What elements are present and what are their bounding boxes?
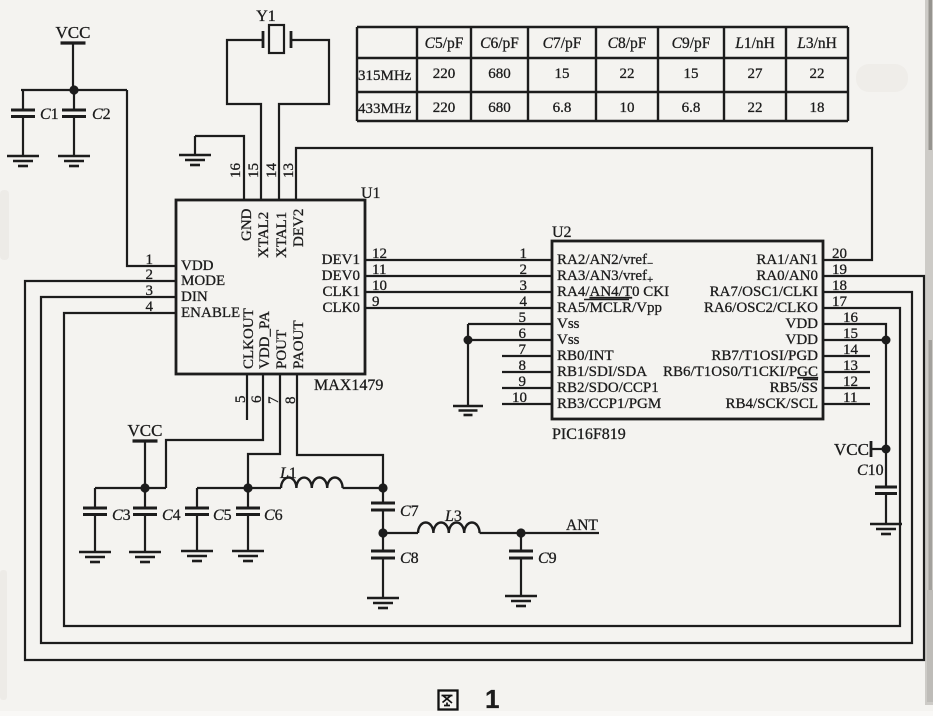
svg-text:CLKOUT: CLKOUT: [241, 308, 257, 369]
svg-text:15: 15: [246, 163, 262, 178]
svg-text:VCC: VCC: [56, 23, 91, 42]
node junction L1/C7/PAOUT: [378, 483, 387, 492]
svg-text:RA5/MCLR/Vpp: RA5/MCLR/Vpp: [557, 300, 662, 316]
svg-text:2: 2: [520, 262, 528, 278]
svg-text:1: 1: [146, 252, 154, 268]
node junction C6/POUT: [243, 483, 252, 492]
svg-text:680: 680: [488, 100, 511, 116]
svg-text:DEV1: DEV1: [322, 252, 360, 268]
svg-text:MODE: MODE: [181, 273, 225, 289]
wire U2 pin9 stub: [502, 387, 552, 389]
wire L3 to ANT: [480, 532, 599, 534]
svg-text:CLK1: CLK1: [323, 284, 361, 300]
svg-text:3: 3: [520, 278, 528, 294]
capacitor C3: [94, 488, 96, 508]
svg-text:6.8: 6.8: [682, 100, 701, 116]
svg-text:L3: L3: [444, 508, 462, 525]
wire DEV0 to RA3: [365, 275, 552, 277]
svg-text:1: 1: [520, 246, 528, 262]
wire U1 pin4 ENABLE routing: [64, 308, 900, 626]
svg-text:VDD: VDD: [181, 258, 214, 274]
svg-text:6.8: 6.8: [553, 100, 572, 116]
wire U2 pin11 stub: [823, 403, 870, 405]
svg-text:16: 16: [228, 163, 244, 179]
wire U2 pin13 stub: [823, 371, 870, 373]
svg-text:ENABLE: ENABLE: [181, 305, 240, 321]
ground below C9: [505, 595, 537, 598]
svg-text:MAX1479: MAX1479: [314, 377, 383, 394]
wire U2 pin12 stub: [823, 387, 870, 389]
capacitor C9: [520, 533, 522, 551]
ground below C5: [181, 550, 213, 553]
svg-text:C8/pF: C8/pF: [608, 35, 647, 52]
wire U2 pin7 stub: [502, 355, 552, 357]
node junction pin15/C10 line: [882, 336, 891, 345]
wire U1 pin13 DEV2 to U2 pin20: [296, 148, 872, 260]
wire U2 pin6 Vss: [468, 339, 552, 341]
wire U1 pin2 MODE routing: [25, 276, 924, 660]
IC U1 MAX1479 body: [176, 200, 365, 374]
svg-text:RB4/SCK/SCL: RB4/SCK/SCL: [725, 396, 818, 412]
svg-text:PAOUT: PAOUT: [291, 320, 307, 369]
wire C1-C2 rail: [21, 89, 127, 91]
svg-text:C6: C6: [264, 507, 283, 524]
capacitor C8: [382, 533, 384, 551]
wire U2 pin8 stub: [502, 371, 552, 373]
svg-text:10: 10: [620, 100, 635, 116]
svg-text:433MHz: 433MHz: [358, 101, 412, 117]
inductor L3: [418, 523, 480, 534]
svg-text:POUT: POUT: [274, 330, 290, 369]
svg-text:1: 1: [485, 684, 499, 714]
inductor L1: [281, 478, 343, 488]
capacitor C6: [247, 488, 249, 508]
svg-text:C10: C10: [857, 462, 884, 479]
svg-text:15: 15: [684, 66, 699, 82]
svg-text:Y1: Y1: [256, 8, 276, 25]
svg-text:L3/nH: L3/nH: [796, 35, 837, 52]
wire U1 pin8 PAOUT to C7 node: [297, 374, 383, 488]
wire U2 pin15 VDD: [823, 339, 886, 341]
scan right edge band: [925, 0, 933, 705]
wire U1 pin3 DIN routing: [41, 292, 912, 643]
svg-text:9: 9: [372, 294, 380, 310]
svg-text:XTAL1: XTAL1: [274, 212, 290, 258]
svg-text:14: 14: [264, 163, 280, 179]
svg-text:19: 19: [832, 262, 847, 278]
wire VDD line down to C10: [885, 340, 887, 487]
svg-text:DEV2: DEV2: [291, 209, 307, 247]
svg-text:C6/pF: C6/pF: [480, 35, 519, 52]
ground at U1 GND pin: [194, 136, 196, 155]
svg-text:RA7/OSC1/CLKI: RA7/OSC1/CLKI: [710, 284, 818, 300]
wire U2 pin14 stub: [823, 355, 870, 357]
svg-text:C1: C1: [40, 106, 59, 123]
wire U1 pin7 POUT to C6 node: [248, 374, 280, 488]
svg-text:18: 18: [832, 278, 847, 294]
wire U2 pin5 Vss: [468, 323, 552, 325]
ground below C6: [232, 550, 264, 553]
svg-text:U2: U2: [552, 224, 572, 241]
svg-text:C8: C8: [400, 550, 419, 567]
wire VCC stem: [144, 441, 146, 488]
IC U2 PIC16F819 body: [552, 241, 823, 419]
svg-text:VCC: VCC: [834, 440, 869, 459]
wire C5-C6-L1 rail: [197, 487, 281, 489]
ground below C8: [367, 597, 399, 600]
svg-text:220: 220: [433, 66, 456, 82]
node junction VCC/C4: [140, 483, 149, 492]
node junction VCC/C10: [882, 445, 891, 454]
wire L1 to C7 node: [343, 487, 383, 489]
capacitor C7: [382, 488, 384, 503]
wire CLK0 to RA5: [365, 307, 552, 309]
svg-text:220: 220: [433, 100, 456, 116]
node junction C7/C8/L3: [378, 528, 387, 537]
ground below C10: [870, 523, 902, 526]
svg-text:15: 15: [555, 66, 570, 82]
ground below C3: [79, 551, 111, 554]
capacitor C5: [196, 488, 198, 508]
svg-text:DIN: DIN: [181, 289, 208, 305]
svg-text:22: 22: [620, 66, 635, 82]
svg-text:22: 22: [748, 100, 763, 116]
svg-text:22: 22: [810, 66, 825, 82]
svg-text:RB6/T1OS0/T1CKI/PGC: RB6/T1OS0/T1CKI/PGC: [663, 364, 818, 380]
svg-text:12: 12: [372, 246, 387, 262]
crystal Y1: [262, 31, 265, 48]
svg-text:11: 11: [372, 262, 386, 278]
svg-text:L1: L1: [279, 465, 297, 482]
svg-text:RB3/CCP1/PGM: RB3/CCP1/PGM: [557, 396, 661, 412]
svg-text:RB1/SDI/SDA: RB1/SDI/SDA: [557, 364, 647, 380]
svg-text:ANT: ANT: [566, 517, 598, 534]
svg-text:XTAL2: XTAL2: [256, 212, 272, 258]
svg-text:315MHz: 315MHz: [358, 68, 412, 84]
wire U1 pin6 VDD_PA to VCC rail: [166, 374, 263, 488]
svg-text:PIC16F819: PIC16F819: [552, 426, 626, 443]
svg-text:4: 4: [520, 294, 528, 310]
wire U2 pin10 stub: [502, 403, 552, 405]
svg-text:VDD_PA: VDD_PA: [257, 311, 273, 369]
svg-text:27: 27: [748, 66, 764, 82]
ground below Vss: [453, 405, 483, 408]
svg-text:DEV0: DEV0: [322, 268, 360, 284]
svg-text:C2: C2: [92, 106, 111, 123]
svg-text:18: 18: [810, 100, 825, 116]
svg-text:RA0/AN0: RA0/AN0: [756, 268, 818, 284]
wire CLK1 to RA4: [365, 291, 552, 293]
capacitor C2: [73, 90, 75, 110]
table grid: [357, 27, 848, 121]
wire C3-C4 rail: [95, 487, 166, 489]
wire crystal right loop to XTAL1: [279, 40, 329, 200]
svg-text:13: 13: [281, 163, 297, 178]
caption figure glyph: [439, 691, 458, 710]
svg-text:GND: GND: [239, 208, 255, 241]
svg-text:Vss: Vss: [557, 316, 580, 332]
node junction ANT/C9: [516, 528, 525, 537]
capacitor C1: [22, 90, 24, 110]
ground below C1: [7, 155, 39, 158]
wire VCC tick to VDD line: [871, 448, 886, 450]
ground below C2: [58, 155, 90, 158]
svg-text:U1: U1: [361, 185, 381, 202]
svg-text:17: 17: [832, 294, 848, 310]
capacitor C4: [144, 488, 146, 508]
node junction VCC/C2: [69, 85, 78, 94]
svg-text:C9: C9: [538, 550, 557, 567]
svg-text:VCC: VCC: [128, 421, 163, 440]
svg-text:RB7/T1OSI/PGD: RB7/T1OSI/PGD: [711, 348, 818, 364]
wire U2 pin16 VDD to C10 line: [823, 324, 886, 340]
svg-text:C5: C5: [213, 507, 232, 524]
svg-text:Vss: Vss: [557, 332, 580, 348]
wire Vss to ground: [467, 324, 469, 406]
svg-text:680: 680: [488, 66, 511, 82]
svg-text:C7/pF: C7/pF: [543, 35, 582, 52]
svg-text:VDD: VDD: [786, 316, 819, 332]
svg-text:RB0/INT: RB0/INT: [557, 348, 614, 364]
svg-text:RA4/AN4/T0 CKI: RA4/AN4/T0 CKI: [557, 284, 669, 300]
svg-text:10: 10: [372, 278, 387, 294]
svg-text:RB5/SS: RB5/SS: [770, 380, 818, 396]
wire VCC stem to junction: [72, 43, 74, 90]
svg-text:20: 20: [832, 246, 847, 262]
wire VCC rail to U1 pin 1 VDD: [127, 90, 176, 266]
wire crystal left loop to XTAL2: [227, 40, 263, 200]
wire U1 pin5 CLKOUT stub: [246, 374, 248, 420]
svg-text:RA1/AN1: RA1/AN1: [756, 252, 818, 268]
ground below C4: [129, 551, 161, 554]
node junction Vss: [464, 336, 473, 345]
wire DEV1 to RA2: [365, 259, 552, 261]
svg-text:C9/pF: C9/pF: [672, 35, 711, 52]
svg-text:C7: C7: [400, 503, 419, 520]
capacitor C10: [875, 486, 897, 489]
wire U1 pin16 GND to ground: [195, 136, 244, 200]
svg-text:C3: C3: [112, 507, 131, 524]
svg-text:CLK0: CLK0: [323, 300, 361, 316]
wire C7 node to L3: [383, 532, 418, 534]
svg-text:C5/pF: C5/pF: [425, 35, 464, 52]
svg-text:VDD: VDD: [786, 332, 819, 348]
svg-text:RB2/SDO/CCP1: RB2/SDO/CCP1: [557, 380, 659, 396]
svg-text:L1/nH: L1/nH: [734, 35, 775, 52]
svg-text:RA6/OSC2/CLKO: RA6/OSC2/CLKO: [704, 300, 818, 316]
svg-text:C4: C4: [162, 507, 181, 524]
